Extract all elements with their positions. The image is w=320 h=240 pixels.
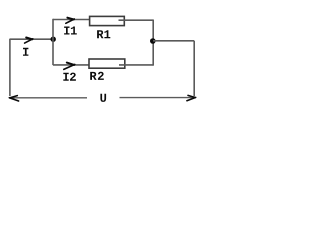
wire left vertical terminal bbox=[9, 39, 11, 96]
arrow U right end bbox=[187, 95, 196, 100]
wire voltage line left segment bbox=[12, 97, 88, 99]
arrow current I2 bbox=[64, 63, 75, 70]
arrow current I1 bbox=[66, 18, 75, 24]
node right junction dot bbox=[150, 38, 156, 44]
node left junction dot bbox=[51, 37, 56, 42]
wire main horizontal input bbox=[10, 38, 54, 40]
wire middle right horizontal bbox=[153, 40, 194, 42]
label U bbox=[100, 94, 106, 102]
resistor R2 bbox=[89, 59, 125, 68]
wire right bus vertical bbox=[152, 20, 154, 66]
wire voltage line right segment bbox=[120, 97, 195, 99]
label I2 bbox=[63, 73, 76, 81]
label I1 bbox=[64, 27, 77, 35]
label R1 bbox=[97, 30, 110, 38]
wire bottom branch right bbox=[119, 64, 153, 66]
arrow current I bbox=[25, 38, 33, 44]
wire left bus vertical bbox=[52, 19, 54, 65]
wire bottom branch left bbox=[53, 64, 90, 66]
label I bbox=[23, 48, 28, 56]
resistor R1 bbox=[90, 16, 125, 25]
wire top branch right bbox=[119, 19, 154, 21]
label R2 bbox=[90, 72, 104, 80]
arrow U left end bbox=[9, 96, 18, 101]
wire right vertical terminal bbox=[193, 41, 195, 96]
wire top branch left bbox=[53, 19, 91, 21]
